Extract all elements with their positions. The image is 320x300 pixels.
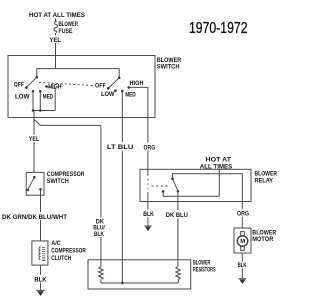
svg-text:COMPRESSOR: COMPRESSOR bbox=[47, 171, 85, 178]
wire hot feed bus inside relay bbox=[163, 195, 219, 197]
svg-text:FUSE: FUSE bbox=[59, 28, 73, 35]
compressor switch box bbox=[26, 172, 44, 195]
svg-text:A/C: A/C bbox=[51, 240, 61, 247]
node MED (left) bbox=[39, 90, 42, 93]
node MED (right) bbox=[121, 90, 124, 93]
junction LT BLU on bus bbox=[121, 282, 124, 285]
svg-text:YEL: YEL bbox=[50, 37, 62, 44]
wire right MED down (LT BLU) bbox=[121, 91, 123, 118]
wire YEL from fuse to blower switch bbox=[55, 33, 57, 56]
svg-text:RESISTORS: RESISTORS bbox=[193, 268, 216, 274]
ground (clutch) bbox=[36, 289, 44, 291]
dashed relay actuation link bbox=[152, 185, 170, 187]
svg-text:M: M bbox=[240, 239, 245, 245]
wire ORG relay to blower motor bbox=[241, 202, 243, 229]
wire hot feed drop inside relay bbox=[218, 169, 220, 196]
wire NO contact stub bbox=[162, 191, 164, 196]
switch arm right pivot drop bbox=[118, 69, 120, 78]
A/C compressor clutch box bbox=[32, 241, 48, 265]
wire BLK relay ground bbox=[147, 202, 149, 226]
svg-text:LOW: LOW bbox=[101, 91, 115, 98]
svg-text:MED: MED bbox=[125, 91, 135, 98]
wire NC contact down (DK BLU) bbox=[177, 191, 179, 201]
node HIGH (left) bbox=[45, 85, 48, 88]
svg-text:ORG: ORG bbox=[144, 144, 156, 151]
svg-text:BLK: BLK bbox=[94, 231, 104, 238]
svg-text:HIGH: HIGH bbox=[130, 80, 144, 87]
switch arm left (at OFF) bbox=[36, 69, 38, 77]
node HIGH (right) bbox=[127, 86, 130, 89]
svg-text:BLK: BLK bbox=[34, 276, 47, 283]
resistor (right, DK BLU leg) bbox=[176, 260, 181, 283]
wire DK GRN/DK BLU/WHT to clutch bbox=[40, 189, 42, 241]
dashed gang link between switch arms bbox=[39, 82, 94, 85]
node LOW (right) bbox=[114, 89, 117, 92]
svg-text:COMPRESSOR: COMPRESSOR bbox=[51, 247, 86, 254]
svg-text:MED: MED bbox=[43, 94, 53, 101]
wire ORG from HIGH to relay coil bbox=[147, 118, 149, 170]
wire left contact bus bbox=[33, 110, 55, 112]
fuse BLOWER FUSE bbox=[54, 21, 58, 33]
clutch plate hatch bbox=[42, 248, 45, 261]
blower relay box bbox=[140, 169, 251, 201]
svg-text:DK GRN/DK BLU/WHT: DK GRN/DK BLU/WHT bbox=[2, 214, 68, 221]
wire left HIGH to bus bbox=[47, 87, 56, 111]
svg-text:1970-1972: 1970-1972 bbox=[189, 20, 248, 37]
svg-text:DK BLU: DK BLU bbox=[166, 212, 188, 219]
svg-text:OFF: OFF bbox=[14, 81, 24, 88]
wire from hot feed to fuse bbox=[55, 19, 57, 22]
wire left LOW to bus bbox=[32, 91, 34, 110]
compressor switch arm (open) bbox=[28, 177, 34, 189]
wire DK BLU/BLK down to resistors bbox=[100, 125, 102, 259]
svg-text:MOTOR: MOTOR bbox=[252, 236, 273, 243]
relay coil (ORG to BLK) bbox=[147, 169, 149, 174]
wire BLK motor ground bbox=[241, 253, 243, 278]
ground (motor) bbox=[239, 278, 247, 280]
blower switch box bbox=[8, 56, 155, 118]
wire jog to DK BLU/BLK feed bbox=[34, 120, 101, 126]
blower resistors box bbox=[88, 260, 191, 289]
wire DK BLU relay to resistors bbox=[177, 202, 179, 260]
svg-text:BLK: BLK bbox=[238, 262, 247, 269]
svg-text:ALL TIMES: ALL TIMES bbox=[200, 163, 233, 170]
svg-text:SWITCH: SWITCH bbox=[157, 64, 180, 71]
wire resistor bus bbox=[101, 282, 178, 284]
svg-text:YEL: YEL bbox=[29, 136, 40, 143]
svg-text:BLK: BLK bbox=[143, 211, 154, 218]
motor M symbol bbox=[237, 236, 247, 246]
compressor switch pivot bbox=[33, 176, 36, 179]
switch arm right (at OFF) bbox=[109, 78, 120, 88]
relay pivot bbox=[171, 178, 174, 181]
wire LT BLU from MED to resistors bbox=[121, 118, 123, 284]
node HOT AT ALL TIMES (top feed) bbox=[29, 12, 85, 19]
junction dot bbox=[32, 109, 35, 112]
svg-text:BLOWER: BLOWER bbox=[59, 21, 79, 28]
svg-text:CLUTCH: CLUTCH bbox=[51, 255, 71, 262]
svg-text:OFF: OFF bbox=[95, 83, 106, 90]
wire right HIGH to ORG drop bbox=[129, 87, 148, 117]
wire feed bus inside switch bbox=[37, 68, 119, 70]
relay arm (on NC) bbox=[173, 179, 178, 191]
compressor switch output contact bbox=[39, 188, 42, 191]
svg-text:BLOWER: BLOWER bbox=[193, 260, 211, 266]
wire left MED to bus bbox=[39, 91, 41, 110]
svg-text:LOW: LOW bbox=[15, 94, 30, 101]
ground (relay) bbox=[144, 225, 152, 227]
relay NO contact bbox=[162, 190, 165, 193]
relay NC contact bbox=[177, 190, 180, 193]
clutch coil bbox=[39, 247, 41, 260]
junction dot bbox=[39, 109, 42, 112]
wire relay common to ORG output bbox=[173, 174, 243, 202]
svg-text:HOT AT ALL TIMES: HOT AT ALL TIMES bbox=[29, 12, 85, 19]
title 1970-1972 bbox=[189, 20, 248, 37]
wire feed drop inside switch bbox=[55, 56, 57, 69]
wire YEL below switch to compressor switch bbox=[33, 111, 35, 173]
svg-text:ORG: ORG bbox=[237, 210, 249, 217]
svg-text:RELAY: RELAY bbox=[255, 177, 274, 184]
svg-text:LT BLU: LT BLU bbox=[107, 144, 134, 151]
blower motor box bbox=[234, 228, 251, 253]
wire BLK clutch ground bbox=[40, 265, 42, 290]
node LOW (left) bbox=[32, 90, 35, 93]
svg-text:SWITCH: SWITCH bbox=[47, 178, 69, 185]
resistor (left, DK BLU/BLK leg) bbox=[99, 260, 104, 283]
